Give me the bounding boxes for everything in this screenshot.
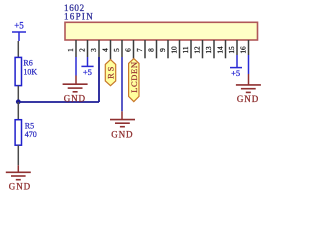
svg-text:11: 11 <box>181 46 190 53</box>
pin 8 <box>156 40 158 58</box>
pin 13 number <box>204 46 213 54</box>
pin 11 <box>190 40 192 58</box>
wire +5 to R6 <box>17 41 19 57</box>
svg-text:+5: +5 <box>83 67 92 77</box>
svg-text:+5: +5 <box>14 21 24 31</box>
pin 15 <box>236 40 238 55</box>
wire pin3 down to junction wire <box>98 57 100 102</box>
net label RS <box>105 60 115 86</box>
pin 4 <box>110 40 112 60</box>
pin 3 number <box>89 48 98 52</box>
svg-text:14: 14 <box>215 46 224 54</box>
pin 5 number <box>112 48 121 52</box>
svg-text:5: 5 <box>112 48 121 52</box>
node junction R6/R5 <box>16 99 21 104</box>
power +5 (pin 15) <box>230 68 242 79</box>
svg-text:+5: +5 <box>231 68 240 78</box>
pin 6 number <box>123 48 132 52</box>
pin 5 <box>121 40 123 57</box>
svg-text:3: 3 <box>89 48 98 52</box>
svg-text:10K: 10K <box>23 68 37 77</box>
pin 14 number <box>215 46 224 54</box>
resistor R5 <box>15 120 37 146</box>
wire pin2 to +5 <box>87 57 89 66</box>
svg-text:GND: GND <box>237 94 259 104</box>
svg-text:2: 2 <box>77 48 86 52</box>
ground (pin 1) <box>63 76 88 104</box>
ground (pin 16) <box>236 74 261 104</box>
pin 7 number <box>135 48 144 52</box>
svg-text:RS: RS <box>106 65 116 79</box>
pin 15 number <box>227 46 236 54</box>
connector J1 1602 16PIN title <box>64 3 94 21</box>
svg-text:R6: R6 <box>23 59 32 68</box>
pin 16 <box>248 40 250 55</box>
wire junction to R5 <box>17 102 19 120</box>
resistor R6 <box>15 57 37 85</box>
pin 10 <box>179 40 181 58</box>
pin 9 <box>167 40 169 58</box>
wire R5 to ground <box>17 145 19 165</box>
ground (below R5) <box>6 165 31 191</box>
svg-text:15: 15 <box>227 46 236 54</box>
svg-text:4: 4 <box>100 48 109 52</box>
net label LCDEN <box>129 59 140 102</box>
wire pin5 to ground <box>121 57 123 111</box>
pin 14 <box>225 40 227 58</box>
pin 2 <box>87 40 89 57</box>
pin 2 number <box>77 48 86 52</box>
connector body <box>65 22 258 40</box>
svg-text:1: 1 <box>66 48 75 52</box>
wire pin15 to +5 <box>236 55 238 68</box>
svg-text:16: 16 <box>238 46 247 54</box>
pin 13 <box>213 40 215 58</box>
svg-text:GND: GND <box>9 182 31 192</box>
svg-text:LCDEN: LCDEN <box>129 61 139 92</box>
wire junction to pin3 (horizontal) <box>18 101 99 103</box>
pin 12 number <box>192 46 201 54</box>
svg-text:10: 10 <box>169 46 178 54</box>
pin 3 <box>98 40 100 57</box>
pin 16 number <box>238 46 247 54</box>
wire R6 to junction <box>17 86 19 102</box>
pin 11 number <box>181 46 190 53</box>
pin 9 number <box>158 48 167 52</box>
wire pin1 down <box>75 57 77 76</box>
power +5 (pin 2) <box>81 66 93 76</box>
svg-text:GND: GND <box>64 93 86 103</box>
svg-text:9: 9 <box>158 48 167 52</box>
pin 1 number <box>66 48 75 52</box>
pin 1 <box>75 40 77 57</box>
svg-text:R5: R5 <box>25 121 34 130</box>
pin 6 <box>133 40 135 59</box>
ground (pin 5) <box>110 111 135 139</box>
svg-text:470: 470 <box>25 130 37 139</box>
pin 12 <box>202 40 204 58</box>
svg-text:GND: GND <box>111 129 133 139</box>
svg-text:12: 12 <box>192 46 201 54</box>
pin 10 number <box>169 46 178 54</box>
svg-text:13: 13 <box>204 46 213 54</box>
pin 8 number <box>146 48 155 52</box>
pin 7 <box>144 40 146 58</box>
label RS text <box>106 65 116 79</box>
pin 4 number <box>100 48 109 52</box>
label LCDEN text <box>129 61 139 92</box>
svg-text:6: 6 <box>123 48 132 52</box>
svg-text:16PIN: 16PIN <box>64 11 94 21</box>
svg-text:7: 7 <box>135 48 144 52</box>
wire pin16 to ground <box>248 55 250 74</box>
svg-text:8: 8 <box>146 48 155 52</box>
power +5 (left rail) <box>12 21 26 41</box>
